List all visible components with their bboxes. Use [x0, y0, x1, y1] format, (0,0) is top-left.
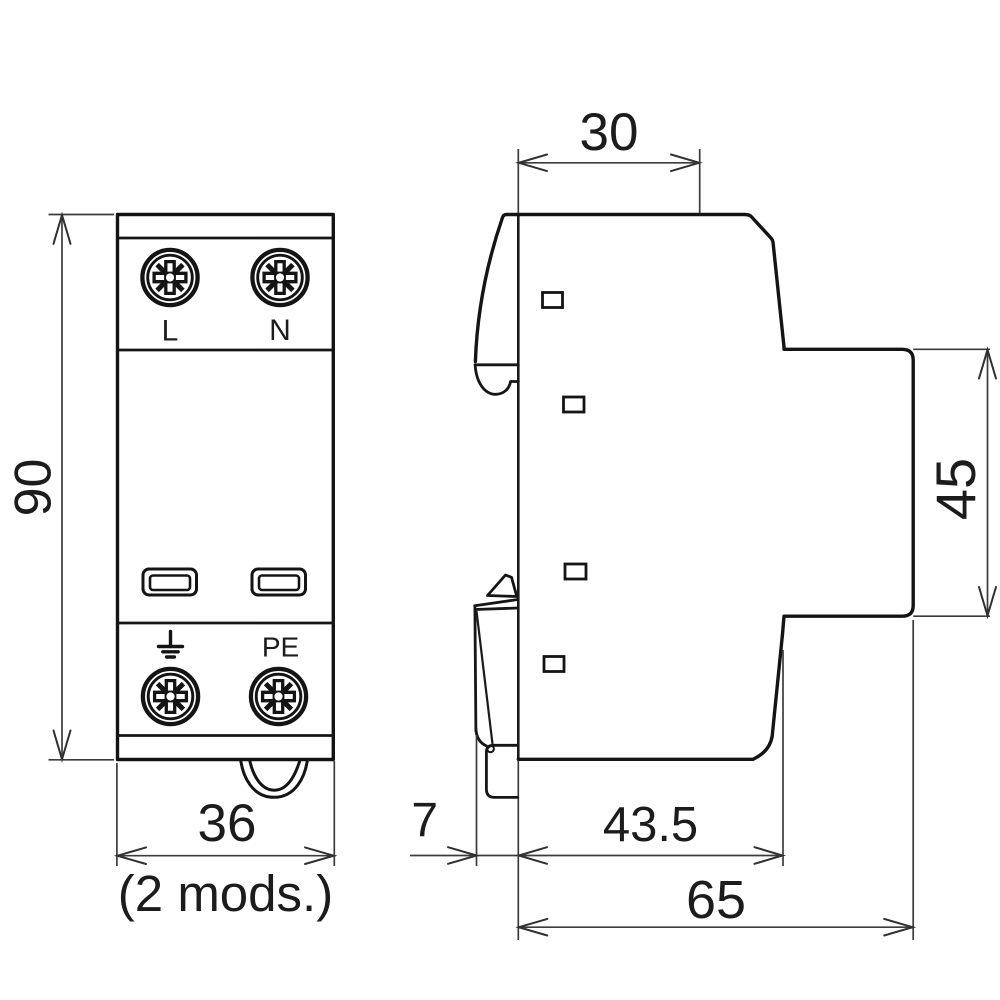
- screw terminal N: [252, 250, 307, 305]
- dimension 45 arrow bottom: [979, 587, 996, 616]
- front view divider above PE section: [118, 622, 334, 625]
- screw terminal PE: [251, 669, 306, 724]
- clip slider bottom transition: [476, 729, 487, 746]
- vent slot 1: [543, 293, 563, 308]
- dimension 45 arrow top: [979, 350, 996, 379]
- dimension 30 extension right: [699, 149, 701, 213]
- clip release tab: [488, 575, 517, 597]
- side view back edge: [517, 215, 520, 759]
- dimension 43.5 extension right: [782, 650, 784, 866]
- clip foot: [486, 745, 517, 797]
- dimension 65 arrow right: [884, 919, 913, 936]
- clip slider top edges: [475, 600, 518, 610]
- svg-text:45: 45: [924, 458, 987, 520]
- vent slot 4: [544, 657, 564, 672]
- svg-text:L: L: [162, 315, 179, 348]
- svg-text:30: 30: [580, 103, 639, 162]
- right slot: [252, 569, 306, 595]
- left slot: [143, 569, 197, 595]
- vent slot 2: [564, 397, 585, 412]
- dimension 7 arrow: [448, 847, 477, 864]
- svg-text:65: 65: [686, 870, 746, 930]
- svg-text:43.5: 43.5: [603, 798, 698, 852]
- dimension 36 arrow right: [305, 847, 334, 864]
- dimension 65 line: [518, 926, 913, 928]
- dimension 45 line: [987, 349, 989, 616]
- dimension 43.5 arrow right: [755, 847, 783, 864]
- dimension 43.5 arrow left: [519, 847, 547, 864]
- svg-text:36: 36: [198, 794, 257, 853]
- screw terminal ground: [143, 669, 198, 724]
- DIN rail clip tab front view: [241, 761, 307, 798]
- clip slider left edge: [475, 606, 476, 731]
- svg-text:(2 mods.): (2 mods.): [118, 865, 333, 922]
- clip foot detail: [487, 745, 494, 752]
- clip slider inner slant: [477, 611, 493, 744]
- side view hook shelf line: [475, 363, 518, 366]
- dimension 90 arrow bottom: [54, 731, 71, 760]
- dimension 65 arrow left: [519, 919, 548, 936]
- svg-text:N: N: [269, 314, 291, 347]
- dimension 30 arrow right: [671, 155, 699, 172]
- dimension 90 extension bottom: [49, 759, 115, 761]
- dimension 90 line: [61, 215, 63, 760]
- dimension 90 extension top: [49, 214, 115, 216]
- dimension 7 extension left: [476, 735, 478, 866]
- svg-text:PE: PE: [262, 632, 299, 663]
- dimension 30 arrow left: [519, 155, 547, 172]
- dimension 36 line: [117, 855, 334, 857]
- dimension 45 extension top: [913, 348, 990, 350]
- dimension 7 and 43.5 line: [410, 855, 783, 857]
- svg-text:90: 90: [5, 459, 63, 517]
- side view body outline: [475, 215, 913, 760]
- front view top strip line: [118, 237, 334, 240]
- dimension 36 extension right: [333, 761, 335, 866]
- svg-text:7: 7: [411, 794, 438, 847]
- screw terminal L: [142, 250, 197, 305]
- ground symbol: [159, 632, 183, 658]
- dimension 65 extension right: [912, 620, 914, 940]
- dimension 90 arrow top: [54, 215, 71, 244]
- vent slot 3: [565, 564, 586, 579]
- front view body outline: [118, 215, 334, 760]
- side view back line: [517, 149, 519, 940]
- side view upper rail hook: [475, 366, 518, 394]
- dimension 45 extension bottom: [913, 615, 990, 617]
- dimension 30 line: [518, 162, 699, 164]
- dimension 36 arrow left: [117, 847, 146, 864]
- front view bottom strip line: [118, 734, 334, 737]
- front view divider below L/N: [118, 349, 334, 352]
- dimension 36 extension left: [116, 763, 118, 866]
